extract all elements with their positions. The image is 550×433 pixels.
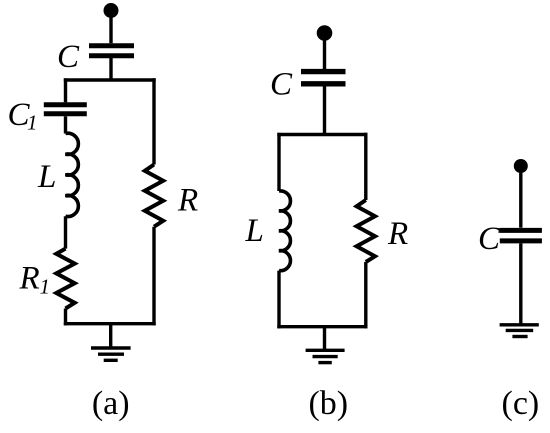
capacitor C (a) top plate [89, 43, 134, 48]
wire: top wire to inductor L (b) [277, 133, 280, 191]
wire: top horizontal node (b) [277, 133, 367, 136]
wire: top wire to resistor R (b) [364, 133, 367, 200]
svg-text:R: R [19, 261, 40, 297]
resistor R (a) [145, 165, 163, 227]
ground (b) bar 2 [313, 355, 338, 358]
wire: dot to capacitor C top plate (a) [109, 11, 112, 44]
svg-text:(a): (a) [92, 385, 130, 422]
svg-text:(b): (b) [308, 385, 348, 422]
ground (c) bar 3 [512, 335, 527, 338]
ground (a) bar 2 [98, 353, 124, 356]
ground (c) bar 2 [506, 329, 534, 332]
terminal node dot (a) [104, 3, 119, 18]
wire: inductor L to bottom node (b) [277, 271, 280, 329]
ground (b) bar 3 [318, 361, 331, 364]
svg-text:R: R [387, 216, 408, 252]
wire: bottom horizontal node (b) [277, 325, 367, 328]
ground (c) bar 1 [500, 323, 539, 326]
wire: top horizontal node (a) [64, 78, 156, 81]
wire: ground stem (a) [109, 324, 112, 348]
wire: resistor R to bottom node (a) [152, 227, 155, 326]
ground (a) bar 3 [104, 359, 118, 362]
ground (a) bar 1 [91, 346, 131, 349]
wire: capacitor C to ground (c) [519, 243, 522, 324]
wire: top wire to resistor R right branch (a) [152, 78, 155, 164]
svg-text:1: 1 [40, 275, 51, 299]
wire: top wire to capacitor C1 (a) [64, 78, 67, 102]
capacitor C (b) top plate [301, 69, 346, 74]
wire: dot to capacitor C top plate (c) [519, 166, 522, 228]
terminal node dot (c) [514, 159, 528, 173]
svg-text:C: C [57, 39, 80, 75]
capacitor C1 (a) top plate [44, 102, 87, 107]
capacitor C1 (a) bottom plate [44, 111, 87, 116]
wire: capacitor C to top node wire (a) [109, 58, 112, 80]
wire: capacitor C to top node wire (b) [323, 86, 326, 136]
capacitor C (a) bottom plate [89, 53, 134, 58]
wire: ground stem (b) [323, 327, 326, 351]
wire: dot to capacitor C top plate (b) [323, 33, 326, 69]
wire: resistor R to bottom node (b) [364, 262, 367, 328]
terminal node dot (b) [317, 25, 333, 41]
wire: bottom horizontal node (a) [64, 322, 156, 325]
ground (b) bar 1 [306, 349, 345, 352]
svg-text:L: L [245, 213, 264, 249]
inductor L (b) [279, 191, 290, 271]
wire: resistor R1 to bottom node (a) [64, 309, 67, 326]
capacitor C (c) bottom plate [500, 238, 542, 243]
wire: inductor L to resistor R1 (a) [64, 216, 67, 248]
svg-text:R: R [177, 183, 198, 219]
inductor L (a) [66, 133, 79, 216]
svg-text:C: C [478, 221, 501, 257]
wire: capacitor C1 to inductor L (a) [64, 116, 67, 133]
svg-text:(c): (c) [502, 385, 540, 422]
capacitor C (c) top plate [500, 228, 542, 233]
svg-text:1: 1 [27, 111, 38, 135]
svg-text:C: C [270, 67, 293, 103]
resistor R (b) [357, 200, 375, 262]
capacitor C (b) bottom plate [301, 81, 346, 86]
resistor R1 (a) [56, 249, 74, 309]
svg-text:L: L [37, 159, 56, 195]
